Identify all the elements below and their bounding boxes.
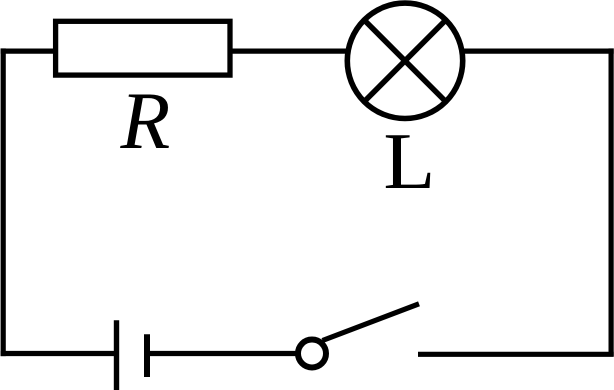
svg-text:L: L: [383, 118, 435, 206]
switch S: [298, 304, 419, 368]
wire top from left corner to resistor: [1, 48, 56, 53]
resistor R: [56, 21, 230, 75]
wire bottom battery to switch: [149, 351, 296, 356]
wire top from resistor to lamp: [230, 48, 348, 53]
wire top from lamp to right corner: [462, 48, 614, 53]
svg-text:R: R: [120, 75, 171, 166]
wire right vertical: [608, 48, 613, 356]
wire bottom left to battery: [1, 351, 114, 356]
lamp L: [347, 3, 462, 118]
wire left vertical: [1, 48, 6, 356]
wire bottom switch to right corner: [418, 352, 614, 357]
battery short plate: [144, 334, 150, 377]
battery long plate: [114, 320, 119, 390]
